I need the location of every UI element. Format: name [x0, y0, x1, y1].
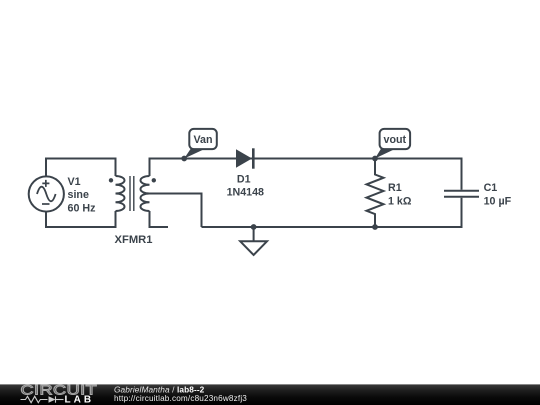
svg-text:sine: sine	[68, 189, 89, 201]
svg-text:R1: R1	[388, 182, 402, 194]
svg-text:GabrielMantha / lab8--2: GabrielMantha / lab8--2	[114, 384, 205, 394]
svg-text:http://circuitlab.com/c8u23n6w: http://circuitlab.com/c8u23n6w8zfj3	[114, 394, 247, 403]
svg-text:Van: Van	[193, 134, 212, 146]
svg-text:10 µF: 10 µF	[484, 196, 512, 208]
svg-text:V1: V1	[68, 176, 81, 188]
svg-text:C1: C1	[484, 182, 498, 194]
svg-text:D1: D1	[237, 174, 251, 186]
svg-text:60 Hz: 60 Hz	[68, 203, 96, 215]
svg-text:1 kΩ: 1 kΩ	[388, 195, 412, 207]
svg-text:LAB: LAB	[65, 394, 95, 405]
svg-text:XFMR1: XFMR1	[115, 234, 153, 246]
svg-text:1N4148: 1N4148	[227, 186, 264, 198]
svg-text:vout: vout	[384, 134, 407, 146]
